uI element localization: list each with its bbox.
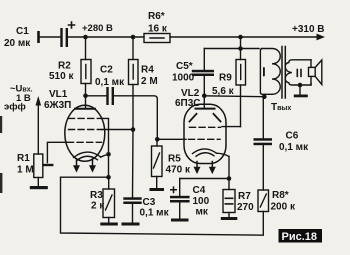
wire C2 to VL2 grid (114, 96, 157, 140)
svg-text:5,6 к: 5,6 к (212, 86, 235, 97)
node VL1 anode (83, 94, 88, 99)
svg-text:C6: C6 (286, 131, 299, 142)
wire screen to VL1 (102, 129, 133, 131)
svg-text:R2: R2 (58, 61, 71, 72)
svg-text:0,1 мк: 0,1 мк (95, 77, 125, 88)
label Uin (4, 84, 33, 113)
svg-text:1000: 1000 (172, 73, 195, 84)
label +280 (82, 23, 113, 34)
label +310 (292, 24, 325, 35)
svg-text:2 к: 2 к (91, 201, 105, 212)
svg-text:R4: R4 (141, 65, 154, 76)
node VL2 anode (202, 94, 207, 99)
VL1 heater arrows (73, 159, 96, 173)
svg-text:470 к: 470 к (166, 165, 191, 176)
svg-text:R6*: R6* (148, 11, 165, 22)
svg-text:R1: R1 (17, 153, 30, 164)
ground R5 (150, 188, 165, 191)
wire +310 to B+ (240, 37, 242, 49)
capacitor C6 (254, 97, 273, 190)
svg-text:510 к: 510 к (49, 71, 74, 82)
capacitor C5 (192, 49, 214, 96)
VL2 cathode (193, 149, 230, 157)
resistor R2 (81, 37, 91, 96)
winding mark I (263, 69, 265, 76)
wire +280 rail (68, 36, 144, 38)
capacitor C3 (123, 197, 141, 222)
label R7 (237, 191, 254, 213)
ground speaker (294, 85, 308, 97)
label R2 (49, 61, 74, 83)
resistor R7 (223, 179, 235, 217)
arrow +310 (317, 34, 326, 41)
label C3 (140, 197, 170, 219)
capacitor C1 (60, 22, 74, 47)
label C6 (279, 131, 309, 154)
wire screen into VL2 (222, 126, 241, 128)
wire g3 to cathode (103, 118, 109, 177)
label R6 (148, 11, 168, 35)
VL1 grid g2 (69, 129, 103, 131)
wire R1 wiper to VL1 grid (42, 142, 67, 166)
VL2 anode (196, 96, 215, 109)
svg-text:мк: мк (196, 207, 209, 218)
ground (C1 left, rotated) (37, 31, 40, 43)
svg-text:6Ж3П: 6Ж3П (44, 100, 71, 111)
label R3 (90, 190, 105, 212)
resistor R8 (258, 190, 269, 212)
winding mark II (297, 70, 301, 77)
node VL2 grid (155, 137, 160, 142)
svg-text:+310 В: +310 В (292, 24, 325, 35)
svg-text:R9: R9 (219, 73, 232, 84)
svg-text:C2: C2 (100, 65, 113, 76)
label C4 (193, 185, 210, 218)
svg-text:0,1 мк: 0,1 мк (140, 208, 170, 219)
label VL2 (175, 88, 201, 109)
tube VL2 envelope (184, 104, 226, 163)
node +310 drop (238, 35, 243, 40)
label R4 (141, 65, 158, 88)
svg-text:1 М: 1 М (17, 165, 34, 176)
transformer core (282, 47, 285, 99)
VL1 grid g1 (68, 141, 102, 143)
potentiometer R1 (34, 154, 43, 186)
svg-text:6П3С: 6П3С (175, 98, 201, 109)
svg-text:Рис.18: Рис.18 (282, 231, 318, 243)
resistor R5 (152, 139, 163, 187)
svg-text:VL1: VL1 (49, 89, 68, 100)
node cathode-g3 (106, 152, 111, 157)
VL2 grid g2 (190, 126, 221, 128)
label R5 (166, 154, 191, 176)
svg-text:R7: R7 (238, 191, 251, 202)
left edge artifacts (0, 116, 2, 193)
VL2 heater arrows (194, 162, 216, 175)
VL2 beam plates (190, 114, 221, 122)
resistor R6 (144, 34, 170, 43)
svg-text:2 М: 2 М (141, 76, 158, 87)
tube VL1 envelope (65, 105, 105, 161)
wire (40, 36, 61, 38)
node VL1 screen (131, 127, 136, 132)
label Ris18 (279, 229, 323, 243)
node +280 (83, 35, 88, 40)
speaker BA1 (309, 60, 322, 85)
svg-text:R5: R5 (168, 154, 181, 165)
node transformer primary bottom (262, 94, 267, 99)
resistor R9 (236, 49, 246, 127)
label VL1 (44, 89, 71, 111)
VL1 cathode (74, 152, 109, 160)
label C1 (4, 26, 31, 49)
wire screen to C3 (132, 130, 135, 198)
node B+ (238, 46, 243, 51)
wire VL2 cathode down (228, 157, 230, 179)
transformer secondary (285, 60, 311, 85)
svg-text:C3: C3 (143, 197, 156, 208)
wire anode to C2 (86, 95, 107, 97)
wire cathode bus (180, 178, 229, 180)
ground R1 (30, 186, 48, 189)
node speaker ground (298, 83, 303, 88)
wire grid into VL2 (157, 138, 186, 140)
VL1 grid g3 (69, 117, 103, 119)
ground R7 (221, 217, 238, 220)
resistor R4 (129, 37, 139, 130)
label R9 (212, 73, 235, 98)
wire anode to transformer (204, 95, 264, 98)
svg-text:0,1 мк: 0,1 мк (279, 142, 309, 153)
label R1 (17, 153, 34, 176)
svg-text:R8*: R8* (272, 190, 289, 201)
wire speaker loop (310, 60, 312, 85)
wire +310 rail (170, 36, 318, 38)
input arrow Uin (36, 96, 42, 154)
label C5 (172, 61, 195, 84)
svg-text:C1: C1 (16, 26, 29, 37)
transformer T primary (260, 49, 280, 97)
svg-text:R3: R3 (90, 190, 103, 201)
ground C4 (171, 219, 189, 222)
svg-text:+280 В: +280 В (82, 23, 113, 34)
svg-text:200 к: 200 к (271, 202, 296, 213)
VL1 anode (75, 96, 95, 109)
svg-text:270: 270 (237, 202, 254, 213)
ground C3 (122, 223, 140, 226)
svg-text:100: 100 (193, 196, 210, 207)
svg-text:C4: C4 (193, 185, 206, 196)
capacitor C4 (170, 179, 190, 219)
label Tvyh (271, 102, 291, 113)
wire feedback rail (61, 177, 264, 235)
label R8 (271, 190, 296, 213)
svg-text:20 мк: 20 мк (4, 38, 31, 49)
label C2 (95, 65, 125, 89)
svg-text:эфф: эфф (4, 102, 26, 113)
resistor R3 (103, 177, 115, 222)
svg-text:C5*: C5* (176, 61, 193, 72)
capacitor C2 (106, 87, 114, 105)
node VL2 cathode junction (227, 176, 232, 181)
wire B+ horizontal (204, 48, 259, 50)
VL2 grid g1 (189, 138, 221, 140)
node VL1 cathode junction (106, 175, 111, 180)
ground R3 (100, 223, 118, 226)
svg-text:16 к: 16 к (148, 24, 168, 35)
node R4 top (131, 35, 136, 40)
